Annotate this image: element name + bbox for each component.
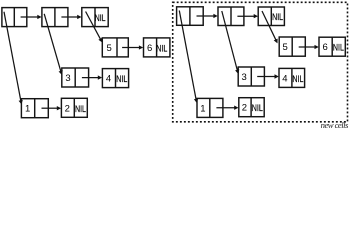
cons cell L1 (top row left, car->(1 2), cdr->next) <box>2 8 27 27</box>
cdr pointer (3 ...) -> (4 . NIL) <box>82 75 102 79</box>
svg-text:NIL: NIL <box>156 43 167 53</box>
cons cell (1 . next) <box>21 99 48 118</box>
car pointer L1 -> cell (1 ...) <box>4 12 23 105</box>
new cons cell R2 (top row middle of copy) <box>218 7 244 26</box>
svg-text:NIL: NIL <box>292 74 303 84</box>
cons cell (2 . NIL) <box>61 98 87 117</box>
cons cell L2 (top row middle, car->(3 4), cdr->next) <box>42 8 68 27</box>
cons cell (6 . NIL) <box>144 38 170 57</box>
new cons cell (4 . NIL) <box>279 68 305 87</box>
cons cell (3 . next) <box>62 68 89 87</box>
new cons cell (3 . next) <box>238 67 264 86</box>
dashed box enclosing the copied structure (new cells) <box>173 2 348 122</box>
new cons cell (6 . NIL) <box>319 37 345 56</box>
cons cell L3 (top row right, car->(5 6), cdr NIL) <box>82 8 108 27</box>
cons cell (4 . NIL) <box>102 69 128 88</box>
svg-text:6: 6 <box>322 42 327 53</box>
new cons cell (2 . NIL) <box>239 98 264 117</box>
car pointer R3 -> new cell (5 ...) <box>262 11 278 43</box>
svg-text:5: 5 <box>107 43 112 54</box>
svg-text:3: 3 <box>65 73 70 84</box>
new cons cell (1 . next) <box>197 98 223 117</box>
svg-text:NIL: NIL <box>252 103 263 113</box>
cdr pointer (1 ...) -> (2 . NIL) <box>42 106 62 110</box>
cdr pointer new (3 ...) -> new (4 . NIL) <box>257 74 279 78</box>
svg-text:1: 1 <box>200 103 205 114</box>
svg-text:2: 2 <box>65 103 70 114</box>
car pointer R2 -> new cell (3 ...) <box>222 11 240 74</box>
svg-text:2: 2 <box>242 103 247 114</box>
svg-text:NIL: NIL <box>116 74 127 84</box>
svg-text:new cells: new cells <box>321 120 349 130</box>
cons cell (5 . next) <box>102 38 128 57</box>
svg-text:NIL: NIL <box>272 12 283 22</box>
new cons cell R3 (top row right of copy, cdr NIL) <box>258 7 284 26</box>
cdr pointer new (1 ...) -> new (2 . NIL) <box>216 106 238 110</box>
svg-text:4: 4 <box>282 73 287 84</box>
cdr pointer R2 -> R3 <box>237 14 258 18</box>
cdr pointer R1 -> R2 <box>197 14 218 18</box>
cdr pointer new (5 ...) -> new (6 . NIL) <box>299 45 319 49</box>
cdr pointer L2 -> L3 <box>61 15 81 19</box>
svg-text:NIL: NIL <box>75 104 86 114</box>
new cons cell R1 (top row left of copy) <box>177 7 204 26</box>
car pointer L2 -> cell (3 ...) <box>44 14 63 75</box>
svg-text:1: 1 <box>25 104 30 115</box>
new cons cell (5 . next) <box>279 37 305 56</box>
svg-text:4: 4 <box>106 74 111 85</box>
svg-text:5: 5 <box>283 42 288 53</box>
car pointer L3 -> cell (5 ...) <box>86 12 103 43</box>
car pointer R1 -> new cell (1 ...) <box>179 11 198 104</box>
svg-text:3: 3 <box>242 72 247 83</box>
svg-text:6: 6 <box>147 43 152 54</box>
cdr pointer (5 ...) -> (6 . NIL) <box>122 45 143 49</box>
svg-text:NIL: NIL <box>333 43 344 53</box>
cdr pointer L1 -> L2 <box>21 15 42 19</box>
svg-text:NIL: NIL <box>95 13 106 23</box>
